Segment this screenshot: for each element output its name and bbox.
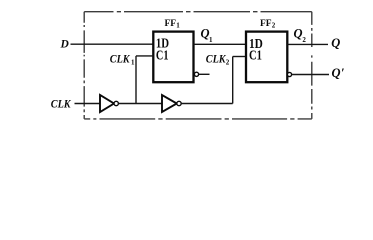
border top edge (dash-dot) (84, 11, 312, 13)
svg-text:2: 2 (302, 36, 306, 44)
wire inverter2 output to CLK2 riser (181, 103, 233, 105)
svg-text:CLK: CLK (206, 53, 227, 65)
wire CLK2 horizontal to C1 of FF2 (233, 56, 246, 58)
svg-text:FF: FF (165, 19, 177, 29)
svg-text:FF: FF (260, 19, 272, 29)
wire CLK1 horizontal to C1 of FF1 (136, 55, 153, 57)
svg-text:1: 1 (131, 58, 135, 66)
inverter 1 bubble (114, 101, 118, 105)
wire Q1: FF1 output to FF2 1D input (194, 43, 247, 45)
svg-text:1: 1 (176, 21, 180, 29)
wire inverter1 output to inverter2 input (118, 103, 162, 105)
wire CLK input (75, 103, 101, 105)
wire CLK1 vertical riser (135, 56, 137, 104)
svg-text:D: D (60, 39, 70, 51)
wire Q' output (292, 74, 329, 76)
border left edge (dash-dot) (83, 12, 85, 119)
svg-text:Q′: Q′ (332, 66, 345, 80)
border bottom edge (dash-dot) (84, 118, 312, 120)
svg-text:2: 2 (226, 58, 230, 66)
svg-text:2: 2 (272, 21, 276, 29)
FF1 complementary output bubble (194, 72, 198, 76)
inverter 2 bubble (177, 101, 181, 105)
border right edge (dash-dot) (311, 12, 313, 119)
svg-text:Q: Q (294, 26, 303, 40)
svg-text:1: 1 (209, 36, 213, 44)
wire FF1 complementary output stub (199, 73, 210, 75)
wire D input (71, 43, 154, 45)
svg-text:C1: C1 (156, 49, 169, 64)
wire CLK2 vertical riser (232, 57, 234, 104)
inverter 1 triangle (100, 95, 114, 112)
inverter 2 triangle (162, 95, 177, 112)
wire Q2: FF2 output to Q (287, 43, 328, 45)
flip-flop FF2 box (246, 32, 287, 83)
svg-text:CLK: CLK (51, 98, 72, 110)
svg-text:CLK: CLK (110, 53, 131, 65)
svg-text:Q: Q (331, 36, 340, 50)
FF2 complementary output bubble (287, 72, 291, 76)
svg-text:C1: C1 (249, 49, 262, 64)
flip-flop FF1 box (153, 32, 193, 83)
